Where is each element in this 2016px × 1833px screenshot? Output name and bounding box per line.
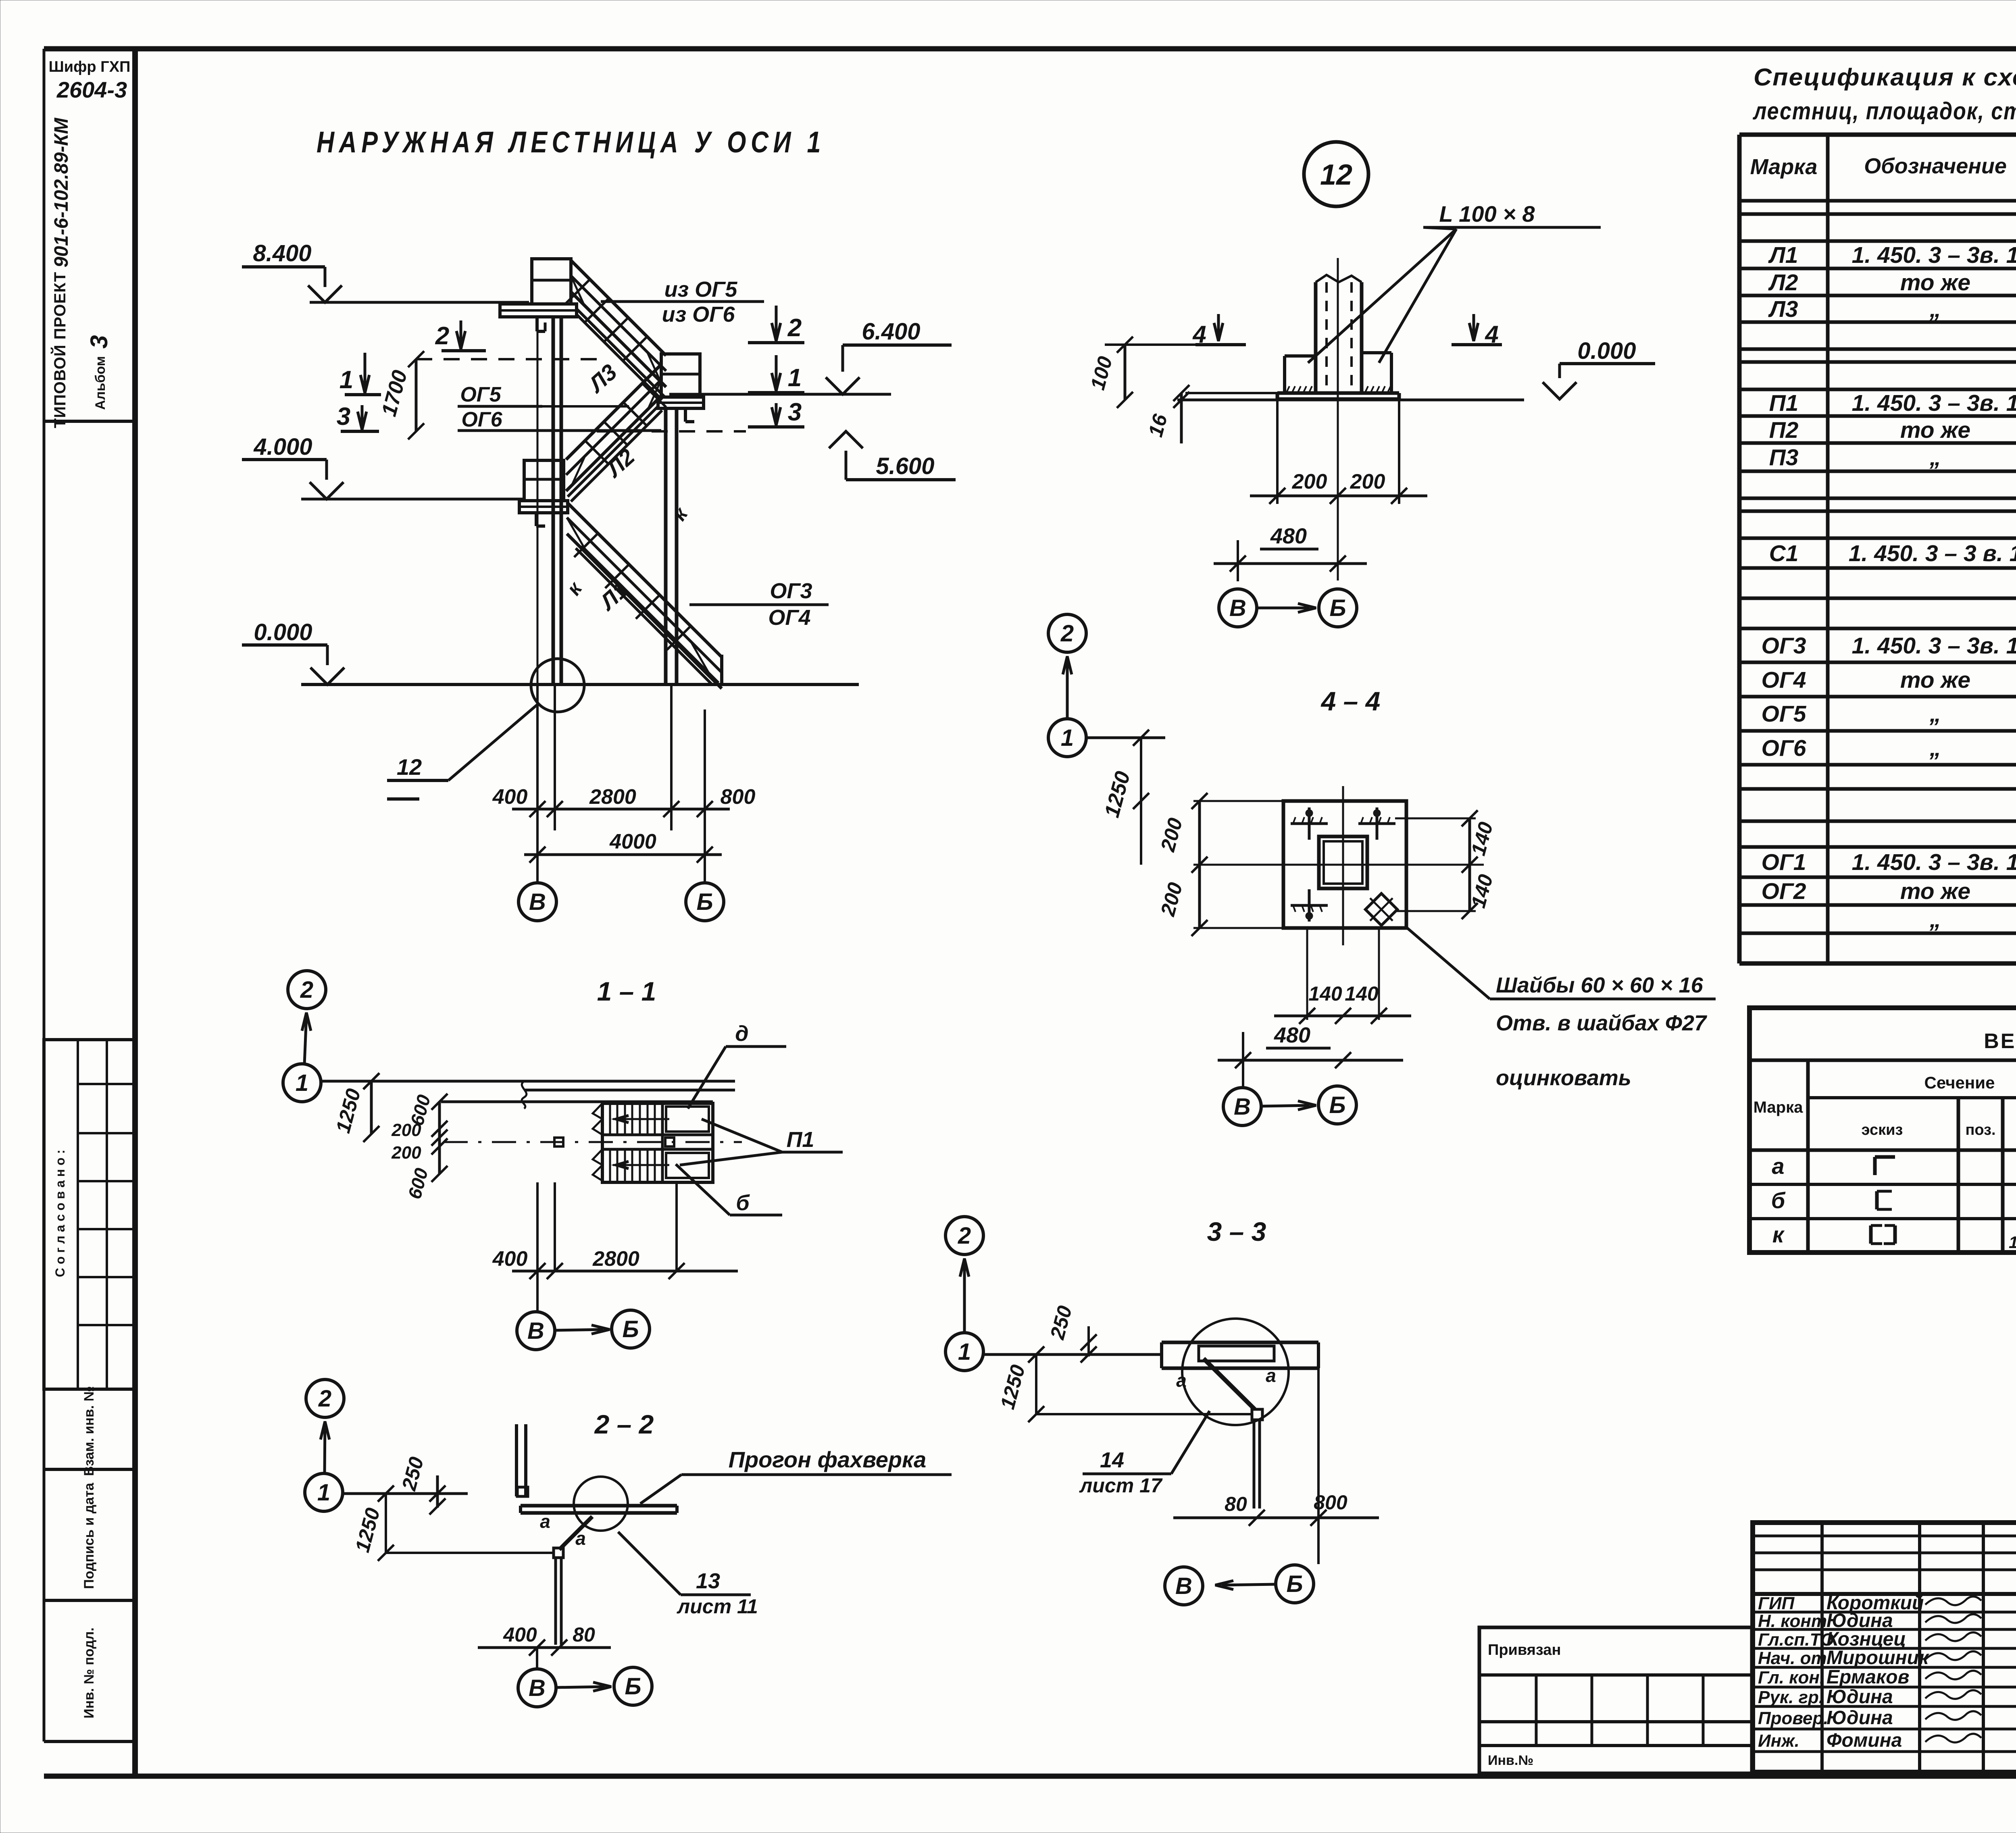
specification table grid: [1739, 133, 2016, 137]
svg-text:1. 450. 3 – 3 в. 1: 1. 450. 3 – 3 в. 1: [1849, 541, 2016, 566]
svg-text:Л2: Л2: [1768, 270, 1798, 295]
axis 1 line (3-3): [983, 1353, 1162, 1356]
svg-text:Альбом: Альбом: [93, 356, 108, 410]
svg-text:П1: П1: [1769, 390, 1799, 416]
svg-text:то же: то же: [1900, 667, 1970, 693]
dimension 200 200: [1276, 400, 1279, 504]
svg-text:2: 2: [435, 322, 449, 350]
svg-text:2604-3: 2604-3: [56, 77, 127, 102]
svg-text:8.400: 8.400: [253, 240, 311, 266]
lower landing slab: [519, 501, 568, 513]
svg-text:3: 3: [788, 398, 802, 426]
svg-text:Б: Б: [622, 1316, 639, 1342]
svg-text:„: „: [1929, 445, 1941, 470]
svg-text:Обозначение: Обозначение: [1864, 154, 2007, 178]
svg-text:„: „: [1929, 701, 1941, 727]
svg-text:Инв. № подл.: Инв. № подл.: [81, 1627, 97, 1719]
washer detail (lower right): [1365, 893, 1397, 925]
svg-text:80: 80: [1225, 1493, 1247, 1515]
svg-text:12: 12: [397, 754, 422, 780]
svg-text:Нач. от.: Нач. от.: [1758, 1648, 1831, 1668]
grid circle Б (elevation): [686, 883, 724, 921]
svg-text:1: 1: [339, 366, 353, 394]
dimension 1700: [415, 359, 418, 431]
stairs plan outline: [602, 1103, 713, 1182]
svg-text:оцинковать: оцинковать: [1496, 1066, 1631, 1090]
flight Л1 stringer: [576, 548, 712, 685]
svg-text:ОГ4: ОГ4: [768, 605, 810, 630]
brace and bolt (3-3): [1252, 1409, 1262, 1420]
bolts on center line: [554, 1138, 563, 1146]
svg-text:2: 2: [787, 314, 802, 342]
dimensions 400 80 (2-2): [478, 1646, 611, 1649]
svg-text:800: 800: [721, 785, 756, 809]
dimension 1250 (1-1): [370, 1081, 373, 1134]
grid circle 2 (2-2): [306, 1379, 344, 1417]
section marker 3 (left): [361, 405, 364, 430]
svg-text:Рук. гр.: Рук. гр.: [1758, 1687, 1824, 1707]
svg-text:а: а: [1176, 1370, 1187, 1391]
column centerline: [1337, 258, 1339, 407]
detail circle (3-3): [1182, 1319, 1289, 1425]
svg-text:2800: 2800: [592, 1247, 639, 1271]
svg-text:Шайбы 60 × 60 × 16: Шайбы 60 × 60 × 16: [1496, 973, 1704, 997]
grid circle 2 (4-4): [1048, 614, 1086, 652]
svg-text:0.000: 0.000: [254, 619, 312, 645]
grid circle 1 (4-4): [1048, 719, 1086, 757]
grid circle Б (3-3): [1276, 1565, 1314, 1603]
svg-text:1. 450. 3 – 3в. 1: 1. 450. 3 – 3в. 1: [1852, 242, 2016, 268]
svg-text:ОГ3: ОГ3: [1761, 633, 1806, 659]
svg-text:2: 2: [958, 1223, 971, 1249]
svg-text:б: б: [1771, 1188, 1786, 1213]
ground line (detail 12): [1177, 399, 1524, 402]
svg-text:2800: 2800: [589, 785, 636, 809]
svg-text:Б: Б: [1329, 1092, 1345, 1118]
svg-text:400: 400: [492, 1247, 528, 1271]
svg-text:Л3: Л3: [1768, 296, 1798, 322]
svg-text:Сечение: Сечение: [1924, 1073, 1995, 1092]
svg-text:2: 2: [1060, 620, 1074, 647]
svg-text:ТИПОВОЙ ПРОЕКТ: ТИПОВОЙ ПРОЕКТ: [50, 272, 69, 428]
dimensions 400 2800 (1-1): [536, 1182, 539, 1312]
stair flight Л1: [567, 502, 722, 657]
svg-text:5.600: 5.600: [876, 453, 934, 479]
svg-text:В: В: [527, 1318, 544, 1344]
svg-text:поз.: поз.: [1965, 1121, 1995, 1138]
middle landing slab: [658, 397, 704, 408]
svg-text:160 × 80 × 4: 160 × 80 × 4: [2009, 1233, 2016, 1252]
section marker 2 (left): [460, 320, 462, 349]
grid circle Б (2-2): [614, 1667, 652, 1705]
treads upper run: [609, 1103, 611, 1135]
dimension 200 200 (left, 4-4): [1198, 801, 1201, 928]
grid circle 1 (3-3): [946, 1333, 983, 1371]
axis extension lines: [536, 685, 539, 883]
svg-text:„: „: [1929, 735, 1941, 761]
svg-text:ОГ1: ОГ1: [1761, 849, 1806, 875]
sidebar stamp column: [44, 420, 135, 423]
svg-text:ОГ3: ОГ3: [770, 579, 812, 603]
wall edge with break: [524, 1089, 735, 1092]
grid circle 2 (3-3): [946, 1217, 983, 1255]
section marker 1 (left): [364, 353, 367, 393]
svg-text:Мирошник: Мирошник: [1826, 1647, 1930, 1669]
svg-text:Взам. инв. №: Взам. инв. №: [81, 1386, 97, 1476]
svg-text:Гл.сп.ТО: Гл.сп.ТО: [1758, 1630, 1834, 1650]
element list table (Ведомость элементов): [1749, 1008, 2016, 1253]
svg-text:лист 17: лист 17: [1079, 1474, 1163, 1497]
hanger rods (2-2): [554, 1558, 557, 1645]
svg-text:В: В: [1175, 1573, 1192, 1599]
fachwerk post (2-2): [515, 1424, 518, 1496]
svg-text:Фомина: Фомина: [1826, 1730, 1902, 1751]
grid circle В (4-4 bottom): [1223, 1088, 1261, 1126]
svg-text:из ОГ6: из ОГ6: [662, 302, 735, 327]
svg-text:2: 2: [318, 1386, 331, 1412]
svg-text:к: к: [1772, 1222, 1785, 1247]
svg-text:П1: П1: [787, 1128, 814, 1152]
detail circle (2-2): [574, 1477, 628, 1531]
svg-text:„: „: [1929, 296, 1941, 322]
anchor bolts on plate: [1291, 822, 1328, 825]
grid circle Б (detail 12): [1319, 589, 1357, 627]
privyazan box: [1479, 1627, 1752, 1773]
svg-text:480: 480: [1270, 524, 1307, 548]
grid circle Б (1-1): [612, 1310, 650, 1348]
axis 1 line (1-1): [321, 1080, 735, 1083]
svg-text:4000: 4000: [609, 830, 656, 853]
svg-text:14: 14: [1100, 1448, 1124, 1472]
svg-text:2: 2: [300, 977, 313, 1003]
svg-text:ОГ2: ОГ2: [1761, 878, 1806, 904]
svg-text:200: 200: [391, 1143, 421, 1163]
grid circle В (elevation): [519, 883, 556, 921]
right column K: [664, 408, 668, 684]
flight Л2 stringer: [568, 406, 659, 497]
dimension 140 140 (right, 4-4): [1468, 818, 1471, 911]
direction arrows: [613, 1118, 669, 1120]
svg-text:200: 200: [1350, 470, 1385, 493]
svg-text:ОГ5: ОГ5: [460, 383, 501, 406]
svg-text:то же: то же: [1900, 878, 1970, 904]
svg-text:400: 400: [492, 785, 528, 809]
platform edge (1-1): [441, 1101, 713, 1103]
dimension 100: [1124, 345, 1127, 400]
svg-text:эскиз: эскиз: [1862, 1121, 1903, 1138]
dimension 16: [1180, 393, 1183, 443]
base plate: [1277, 391, 1399, 395]
sidebar approval box: [44, 1040, 135, 1389]
svg-text:Провер.: Провер.: [1758, 1708, 1828, 1728]
grid circle В (1-1): [517, 1312, 555, 1350]
svg-text:3 – 3: 3 – 3: [1207, 1217, 1266, 1246]
svg-text:б: б: [736, 1191, 750, 1215]
svg-text:Подпись и дата: Подпись и дата: [81, 1482, 97, 1589]
svg-text:В: В: [529, 1675, 546, 1701]
svg-text:1 – 1: 1 – 1: [597, 976, 656, 1006]
svg-text:Б: Б: [1286, 1571, 1303, 1597]
dimensions 80 800 (3-3): [1173, 1517, 1379, 1519]
svg-text:200: 200: [391, 1120, 421, 1140]
svg-text:а: а: [540, 1511, 550, 1532]
treads lower run: [609, 1149, 611, 1181]
ground line: [301, 683, 859, 686]
middle landing railing (6.400): [661, 354, 700, 397]
svg-text:80: 80: [573, 1623, 595, 1646]
top landing bracket: [535, 317, 539, 331]
svg-text:1: 1: [958, 1339, 971, 1365]
grid circle 1 (1-1): [283, 1064, 321, 1102]
svg-text:Ермаков: Ермаков: [1826, 1667, 1910, 1688]
svg-text:НАРУЖНАЯ ЛЕСТНИЦА У ОСИ: НАРУЖНАЯ ЛЕСТНИЦА У ОСИ 1: [317, 125, 825, 159]
column shaft (detail 12): [1314, 282, 1318, 393]
landing panels: [666, 1107, 709, 1132]
dimension 1250 (4-4): [1140, 738, 1142, 865]
svg-text:а: а: [1266, 1365, 1276, 1386]
svg-text:1. 450. 3 – 3в. 1: 1. 450. 3 – 3в. 1: [1852, 849, 2016, 875]
stair flight Л3: [571, 260, 666, 356]
svg-text:ВЕДОМОСТЬ ЭЛЕМЕНТОВ: ВЕДОМОСТЬ ЭЛЕМЕНТОВ: [1984, 1030, 2016, 1053]
left column (K): [552, 317, 555, 684]
grid circle В (detail 12): [1219, 589, 1257, 627]
svg-text:ОГ5: ОГ5: [1761, 701, 1806, 727]
svg-text:1. 450. 3 – 3в. 1: 1. 450. 3 – 3в. 1: [1852, 633, 2016, 659]
svg-text:0.000: 0.000: [1577, 338, 1636, 364]
svg-text:С1: С1: [1769, 541, 1799, 566]
svg-text:Б: Б: [625, 1673, 641, 1700]
svg-text:Инж.: Инж.: [1758, 1731, 1799, 1751]
svg-text:1: 1: [1061, 725, 1074, 751]
svg-text:Прогон фахверка: Прогон фахверка: [729, 1447, 927, 1472]
svg-text:В: В: [529, 889, 546, 915]
svg-text:Юдина: Юдина: [1826, 1707, 1893, 1729]
grid circle 2 (1-1): [288, 971, 326, 1009]
svg-text:1. 450. 3 – 3в. 1: 1. 450. 3 – 3в. 1: [1852, 390, 2016, 416]
top landing railing (8.400): [532, 259, 571, 304]
page border frame: [44, 46, 2016, 52]
svg-text:Шифр ГХП: Шифр ГХП: [49, 58, 131, 75]
dimension 4000: [524, 853, 722, 856]
svg-text:ОГ6: ОГ6: [1761, 735, 1806, 761]
svg-text:3: 3: [337, 403, 350, 431]
svg-text:Юдина: Юдина: [1826, 1686, 1893, 1708]
svg-text:Б: Б: [1329, 595, 1346, 621]
middle landing bracket: [684, 408, 687, 422]
flight Л3 stringer: [577, 309, 664, 397]
svg-text:Привязан: Привязан: [1488, 1642, 1561, 1658]
detail 12 bubble: [1304, 142, 1368, 206]
title block: [1753, 1523, 2016, 1772]
svg-text:Л1: Л1: [1768, 242, 1798, 268]
axis 1 line (2-2): [342, 1492, 468, 1495]
svg-text:В: В: [1234, 1094, 1251, 1120]
svg-text:4 – 4: 4 – 4: [1320, 686, 1381, 716]
svg-text:В: В: [1229, 595, 1246, 621]
column tube cross-section: [1319, 836, 1367, 888]
grid circle Б (4-4 bottom): [1318, 1086, 1356, 1124]
svg-text:ГИП: ГИП: [1758, 1594, 1795, 1613]
svg-text:Б: Б: [696, 889, 713, 915]
svg-text:1: 1: [296, 1070, 308, 1096]
angle cleats L100x8: [1285, 354, 1316, 358]
leader 12 to column base: [531, 659, 584, 712]
svg-text:1: 1: [317, 1479, 330, 1506]
svg-text:П3: П3: [1769, 445, 1799, 470]
svg-text:Инв.№: Инв.№: [1488, 1753, 1533, 1768]
channel section inside: [1199, 1346, 1274, 1361]
centerlines (4-4): [1342, 786, 1344, 945]
girt beam (2-2): [521, 1504, 677, 1508]
svg-text:3: 3: [85, 335, 112, 348]
axis 1 line (4-4): [1086, 737, 1165, 739]
stair flight Л2: [566, 364, 661, 460]
svg-text:6.400: 6.400: [862, 318, 920, 345]
svg-text:140: 140: [1308, 982, 1342, 1005]
section cut dashes: [416, 358, 597, 360]
svg-text:Гл. кон.: Гл. кон.: [1758, 1668, 1824, 1687]
grid circle В (2-2): [518, 1669, 556, 1707]
svg-text:из ОГ5: из ОГ5: [664, 277, 738, 302]
grid circle В (3-3): [1165, 1567, 1203, 1605]
section marker 3 (right): [775, 403, 778, 425]
svg-text:480: 480: [1274, 1023, 1310, 1047]
dimensions 600 200 200 600 (1-1): [438, 1102, 441, 1174]
svg-text:1: 1: [788, 364, 802, 392]
svg-text:П2: П2: [1769, 417, 1799, 443]
svg-text:то же: то же: [1900, 417, 1970, 443]
section marker 2 (right): [775, 306, 778, 341]
svg-text:Н. конт.: Н. конт.: [1758, 1611, 1832, 1631]
lower landing railing: [524, 460, 564, 501]
svg-text:200: 200: [1292, 470, 1327, 493]
svg-text:Отв. в шайбах Ф27: Отв. в шайбах Ф27: [1496, 1011, 1708, 1035]
svg-text:Спецификация к схемам ра: Спецификация к схемам расположения типов…: [1754, 64, 2016, 91]
svg-text:12: 12: [1320, 159, 1352, 191]
dimension row 400 2800 800: [512, 808, 730, 811]
svg-text:ОГ4: ОГ4: [1761, 667, 1806, 693]
top landing slab: [500, 304, 577, 317]
bolt and brace (2-2): [554, 1548, 563, 1558]
svg-text:400: 400: [503, 1623, 537, 1646]
svg-text:13: 13: [696, 1569, 720, 1593]
svg-text:901-6-102.89-КМ: 901-6-102.89-КМ: [51, 117, 72, 267]
svg-text:L 100 × 8: L 100 × 8: [1439, 201, 1535, 227]
sidebar cells: [44, 1388, 135, 1391]
svg-text:а: а: [1772, 1153, 1784, 1179]
girt beam (3-3): [1162, 1341, 1318, 1344]
section marker 1 (right): [775, 355, 778, 391]
svg-text:Марка: Марка: [1754, 1099, 1804, 1116]
base plate plan: [1283, 801, 1406, 928]
dimension 140 140 (bottom, 4-4): [1306, 928, 1308, 1020]
svg-text:4.000: 4.000: [253, 434, 312, 460]
svg-text:лестниц, площадок, стремянок: лестниц, площадок, стремянок и ограждени…: [1752, 98, 2016, 125]
grid circle 1 (2-2): [305, 1473, 343, 1511]
svg-text:С о г л а с о в а н о :: С о г л а с о в а н о :: [53, 1150, 67, 1277]
svg-text:Марка: Марка: [1750, 155, 1818, 179]
hanger rods (3-3): [1253, 1421, 1256, 1508]
svg-text:140: 140: [1345, 982, 1379, 1005]
center line (1-1): [444, 1141, 742, 1143]
svg-text:лист 11: лист 11: [677, 1595, 758, 1618]
svg-text:„: „: [1929, 907, 1941, 932]
svg-text:ОГ6: ОГ6: [461, 408, 502, 431]
svg-text:2 – 2: 2 – 2: [594, 1409, 654, 1439]
svg-text:д: д: [735, 1022, 748, 1046]
svg-text:то же: то же: [1900, 270, 1970, 295]
lower landing bracket: [535, 513, 538, 526]
